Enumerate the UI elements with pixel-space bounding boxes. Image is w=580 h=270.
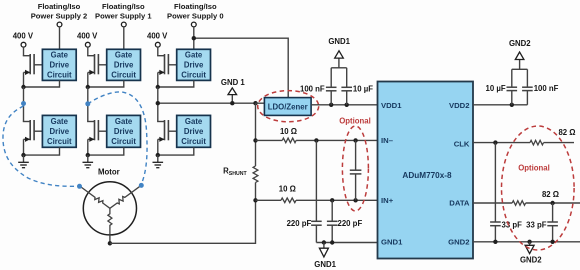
svg-text:Circuit: Circuit bbox=[111, 70, 136, 79]
400 V terminal leg 0 bbox=[155, 42, 160, 47]
svg-text:Gate: Gate bbox=[51, 50, 69, 59]
svg-text:Power Supply 1: Power Supply 1 bbox=[95, 12, 152, 21]
ground GND1 (top) bbox=[335, 51, 344, 58]
wire motor neutral to shunt bbox=[109, 235, 111, 243]
node motor terminal B bbox=[139, 183, 144, 188]
phase node junction leg 2 bbox=[21, 85, 25, 89]
junction VDD1 100nF tap bbox=[329, 103, 333, 107]
junction GND2 33pF left bbox=[493, 240, 497, 244]
optional ellipse (right) bbox=[502, 126, 575, 250]
resistor RSHUNT bbox=[253, 166, 258, 183]
transistor high-side leg 2 bbox=[29, 54, 31, 74]
ground symbol leg 1 bbox=[87, 155, 89, 162]
resistor 82 Ohm (DATA) bbox=[512, 201, 525, 206]
node phase B tap bbox=[85, 101, 90, 106]
wire source to phase node leg 2 bbox=[23, 72, 25, 87]
svg-text:CLK: CLK bbox=[454, 140, 470, 149]
wire IN+ line bbox=[256, 199, 282, 201]
resistor 10 Ohm (IN-) bbox=[282, 138, 296, 143]
svg-text:82 Ω: 82 Ω bbox=[558, 128, 575, 137]
svg-text:ADuM770x-8: ADuM770x-8 bbox=[402, 171, 452, 180]
resistor 10 Ohm (IN+) bbox=[281, 198, 296, 203]
floating supply terminal leg 1 bbox=[121, 22, 126, 27]
node GND 1 (rail) bbox=[231, 95, 233, 103]
wire VDD1 caps to GND1 bbox=[331, 67, 347, 69]
wire gate box return high-side leg 0 bbox=[158, 80, 194, 87]
svg-text:Floating/Iso: Floating/Iso bbox=[174, 2, 217, 11]
junction DATA 33pF tap bbox=[550, 201, 554, 205]
wire source to ground node leg 0 bbox=[157, 139, 159, 155]
wire drain high-side leg 0 bbox=[157, 47, 159, 56]
svg-text:GND2: GND2 bbox=[509, 39, 531, 48]
wire gate box return high-side leg 1 bbox=[88, 80, 124, 87]
svg-text:Motor: Motor bbox=[98, 168, 120, 177]
wire (phase A dashed link) bbox=[3, 106, 77, 186]
junction VDD2 10uF tap bbox=[510, 103, 514, 107]
svg-text:VDD1: VDD1 bbox=[381, 101, 402, 110]
wire gate box return low-side leg 0 bbox=[158, 147, 194, 155]
wire VDD2 caps to GND2 bbox=[512, 68, 528, 70]
ground symbol leg 2 bbox=[23, 155, 25, 162]
svg-text:IN–: IN– bbox=[381, 136, 394, 145]
junction shunt top bbox=[253, 138, 257, 142]
svg-text:Floating/Iso: Floating/Iso bbox=[102, 2, 145, 11]
junction IN- 220pF tap bbox=[314, 138, 318, 142]
gate drive circuit box low-side leg 1 bbox=[107, 115, 141, 147]
svg-text:Drive: Drive bbox=[114, 127, 134, 136]
svg-text:10 Ω: 10 Ω bbox=[280, 127, 297, 136]
svg-text:400 V: 400 V bbox=[147, 31, 168, 40]
ground node junction leg 2 bbox=[21, 153, 25, 157]
wire VDD2 line bbox=[473, 104, 527, 106]
svg-text:Circuit: Circuit bbox=[181, 137, 206, 146]
floating supply terminal leg 2 bbox=[57, 22, 62, 27]
capacitor 10 uF (VDD2) bbox=[511, 91, 513, 105]
svg-text:Power Supply 0: Power Supply 0 bbox=[167, 12, 224, 21]
floating supply terminal leg 0 bbox=[191, 22, 196, 27]
capacitor 220 pF (IN+) bbox=[331, 200, 333, 221]
junction IN- optional cap tap bbox=[353, 138, 357, 142]
wire source to phase node leg 1 bbox=[87, 72, 89, 87]
wire floating supply 0 to LDO bbox=[194, 38, 288, 97]
node motor terminal A bbox=[77, 184, 82, 189]
svg-text:GND1: GND1 bbox=[328, 37, 350, 46]
junction rail corner bbox=[253, 101, 257, 105]
optional ellipse around LDO bbox=[258, 91, 319, 122]
optional ellipse (middle) bbox=[342, 126, 368, 211]
svg-text:SHUNT: SHUNT bbox=[229, 171, 248, 177]
svg-text:10 µF: 10 µF bbox=[486, 84, 506, 93]
svg-text:GND2: GND2 bbox=[520, 256, 542, 265]
wire supply to gate box leg 0 bbox=[193, 27, 195, 49]
svg-text:GND 1: GND 1 bbox=[221, 78, 245, 87]
svg-text:GND2: GND2 bbox=[448, 237, 469, 246]
capacitor 33 pF (DATA) bbox=[552, 203, 554, 222]
svg-text:GND1: GND1 bbox=[381, 237, 403, 246]
svg-text:DATA: DATA bbox=[449, 199, 470, 208]
svg-text:Optional: Optional bbox=[518, 164, 550, 173]
svg-text:Drive: Drive bbox=[50, 127, 70, 136]
svg-text:Circuit: Circuit bbox=[111, 137, 136, 146]
phase wire leg 2 bbox=[23, 87, 25, 122]
junction CLK 33pF tap bbox=[493, 140, 497, 144]
junction VDD1 10uF tap bbox=[345, 103, 349, 107]
junction GND2 33pF right bbox=[550, 240, 554, 244]
ground GND2 (top) bbox=[515, 52, 524, 60]
capacitor 100 nF (VDD1) bbox=[330, 91, 332, 105]
wire GND2 pin line bbox=[473, 241, 580, 243]
transistor low-side leg 2 bbox=[23, 121, 30, 123]
svg-text:220 pF: 220 pF bbox=[287, 219, 312, 228]
phase node junction leg 1 bbox=[86, 85, 90, 89]
svg-text:Drive: Drive bbox=[114, 60, 134, 69]
junction shunt bottom bbox=[253, 198, 257, 202]
400 V terminal leg 2 bbox=[21, 42, 26, 47]
svg-text:VDD2: VDD2 bbox=[449, 101, 470, 110]
capacitor 220 pF (IN-) bbox=[315, 140, 317, 221]
gate drive circuit box low-side leg 0 bbox=[177, 115, 211, 147]
phase node junction leg 0 bbox=[156, 85, 160, 89]
svg-text:Circuit: Circuit bbox=[181, 70, 206, 79]
isolator U1 ADuM770x-8 bbox=[378, 82, 474, 259]
svg-text:Circuit: Circuit bbox=[47, 70, 72, 79]
wire CLK line bbox=[473, 142, 530, 144]
wire source to ground node leg 2 bbox=[23, 139, 25, 155]
svg-text:IN+: IN+ bbox=[381, 196, 394, 205]
svg-text:33 pF: 33 pF bbox=[502, 221, 523, 230]
wire (phase B dashed link) bbox=[88, 92, 147, 184]
wire VDD1 line bbox=[311, 104, 377, 106]
svg-text:Optional: Optional bbox=[339, 117, 371, 126]
ground node junction leg 0 bbox=[156, 153, 160, 157]
ground GND1 (bottom) bbox=[323, 243, 325, 249]
transistor low-side leg 1 bbox=[87, 121, 94, 123]
svg-text:220 pF: 220 pF bbox=[338, 219, 363, 228]
junction leg 0 rail tap bbox=[156, 101, 160, 105]
capacitor 10 uF (VDD1) bbox=[346, 91, 348, 105]
junction 220pF right bottom bbox=[330, 240, 334, 244]
gate drive circuit box low-side leg 2 bbox=[42, 115, 76, 147]
transistor high-side leg 1 bbox=[94, 54, 96, 74]
gate drive circuit box high-side leg 2 bbox=[42, 49, 76, 80]
motor winding C bbox=[108, 208, 112, 235]
resistor 82 Ohm (CLK) bbox=[530, 140, 544, 145]
400 V terminal leg 1 bbox=[85, 42, 90, 47]
regulator LDO/Zener bbox=[264, 98, 311, 116]
wire gate box return low-side leg 2 bbox=[24, 147, 60, 155]
svg-text:Power Supply 2: Power Supply 2 bbox=[31, 12, 88, 21]
svg-text:Drive: Drive bbox=[184, 60, 204, 69]
svg-text:Gate: Gate bbox=[115, 50, 133, 59]
wire rail into LDO bbox=[256, 102, 265, 104]
svg-text:Gate: Gate bbox=[115, 117, 133, 126]
transistor high-side leg 0 bbox=[164, 54, 166, 74]
wire shunt column top bbox=[255, 103, 257, 166]
transistor low-side leg 0 bbox=[157, 121, 164, 123]
capacitor 100 nF (VDD2) bbox=[526, 91, 528, 105]
ground symbol leg 0 bbox=[157, 155, 159, 162]
wire drain high-side leg 2 bbox=[23, 47, 25, 56]
motor winding B bbox=[110, 186, 141, 209]
junction IN+ 220pF tap bbox=[330, 198, 334, 202]
phase wire leg 1 bbox=[87, 87, 89, 122]
wire DATA line bbox=[473, 202, 512, 204]
svg-text:Circuit: Circuit bbox=[47, 137, 72, 146]
phase wire leg 0 bbox=[157, 87, 159, 122]
svg-text:Drive: Drive bbox=[184, 127, 204, 136]
svg-text:Floating/Iso: Floating/Iso bbox=[38, 2, 81, 11]
junction supply 0 tap bbox=[192, 36, 196, 40]
svg-text:400 V: 400 V bbox=[77, 31, 98, 40]
svg-text:Drive: Drive bbox=[50, 60, 70, 69]
wire leg 0 source rail to LDO (GND1 rail) bbox=[158, 102, 256, 104]
junction GND1 symbol tap bbox=[322, 240, 326, 244]
wire supply to gate box leg 2 bbox=[59, 27, 61, 49]
ground node junction leg 1 bbox=[86, 153, 90, 157]
svg-text:10 µF: 10 µF bbox=[353, 84, 373, 93]
motor winding A bbox=[81, 187, 110, 209]
junction IN+ optional cap tap bbox=[353, 198, 357, 202]
wire drain high-side leg 1 bbox=[87, 47, 89, 56]
wire source to ground node leg 1 bbox=[87, 139, 89, 155]
svg-text:100 nF: 100 nF bbox=[534, 84, 559, 93]
svg-text:10 Ω: 10 Ω bbox=[279, 185, 296, 194]
svg-text:100 nF: 100 nF bbox=[300, 84, 325, 93]
svg-text:Gate: Gate bbox=[51, 117, 69, 126]
svg-text:Gate: Gate bbox=[185, 50, 203, 59]
svg-text:LDO/Zener: LDO/Zener bbox=[268, 102, 308, 111]
wire GND1 pin line bbox=[316, 242, 377, 244]
wire supply to gate box leg 1 bbox=[123, 27, 125, 49]
capacitor 33 pF (CLK) bbox=[494, 143, 496, 222]
wire gate box return low-side leg 1 bbox=[88, 147, 124, 155]
gate drive circuit box high-side leg 0 bbox=[177, 49, 211, 80]
svg-text:Gate: Gate bbox=[185, 117, 203, 126]
wire IN- line bbox=[256, 139, 283, 141]
gate drive circuit box high-side leg 1 bbox=[107, 49, 141, 80]
junction GND2 symbol tap bbox=[527, 240, 531, 244]
wire source to phase node leg 0 bbox=[157, 72, 159, 87]
capacitor optional (IN- to IN+) bbox=[355, 140, 357, 170]
node phase A tap bbox=[21, 101, 26, 106]
svg-text:82 Ω: 82 Ω bbox=[542, 190, 559, 199]
ground GND2 (bottom) bbox=[529, 242, 531, 246]
wire gate box return high-side leg 2 bbox=[24, 80, 60, 87]
svg-text:400 V: 400 V bbox=[13, 31, 34, 40]
svg-text:33 pF: 33 pF bbox=[526, 221, 547, 230]
svg-text:GND1: GND1 bbox=[314, 260, 336, 269]
